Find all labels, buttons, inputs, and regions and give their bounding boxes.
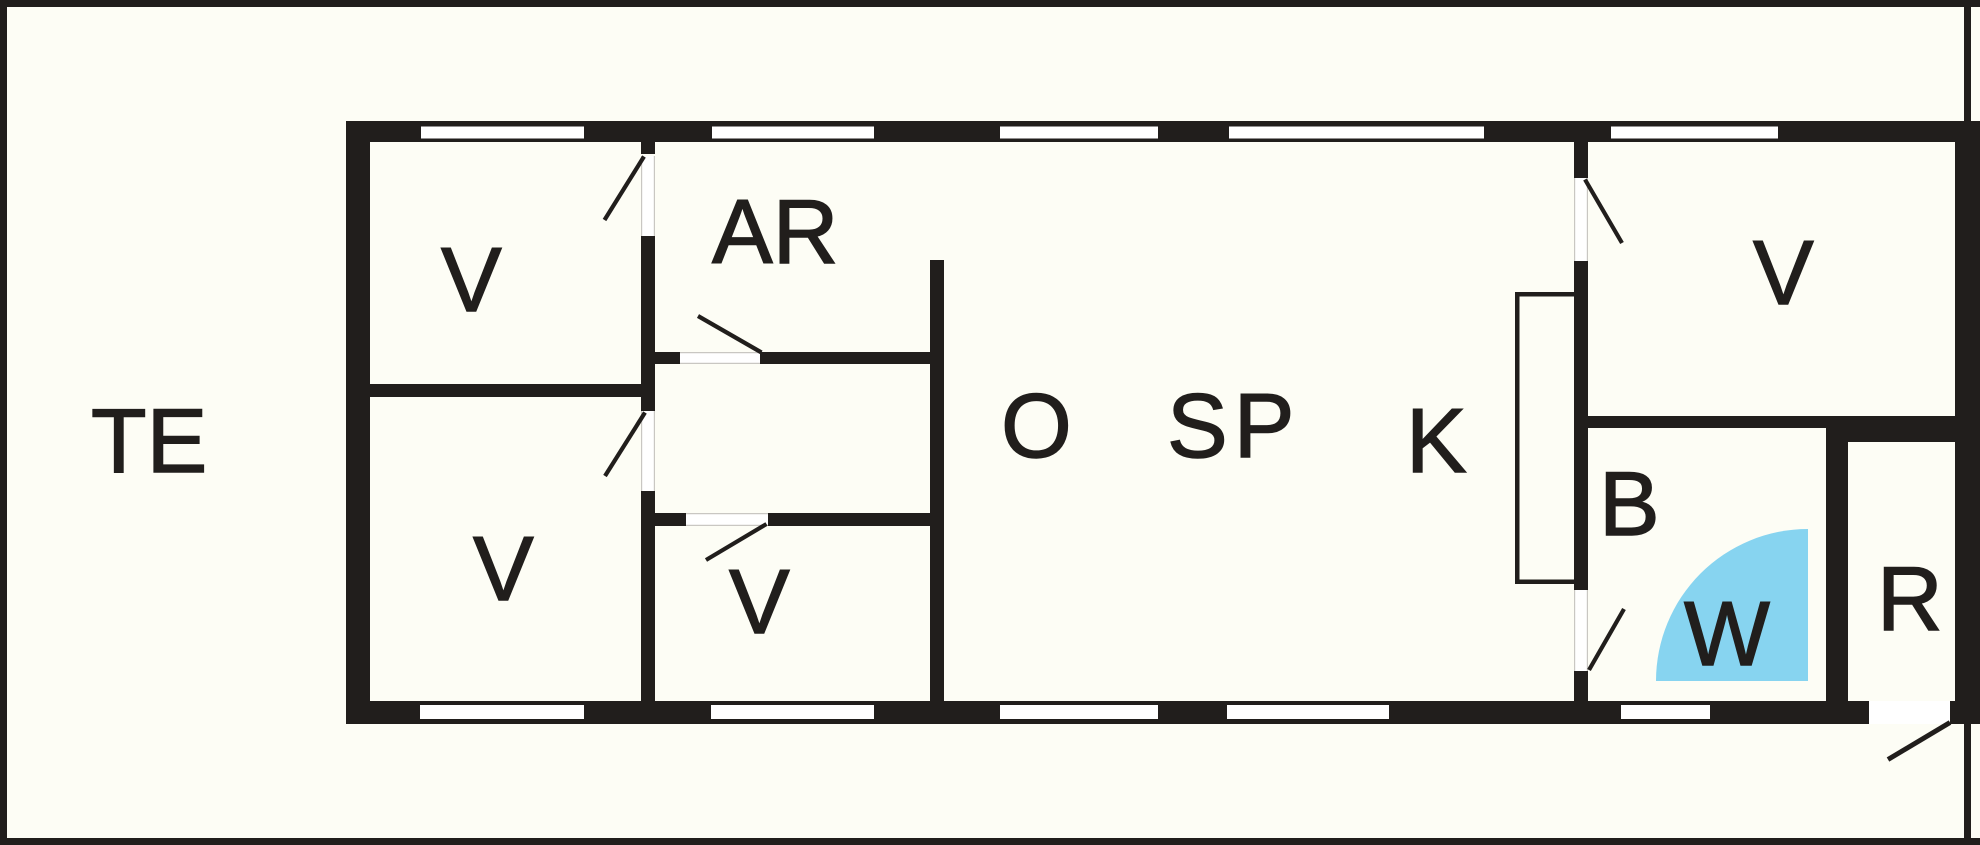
svg-text:V: V xyxy=(729,552,790,653)
svg-text:O: O xyxy=(1001,376,1072,477)
svg-text:SP: SP xyxy=(1167,376,1300,477)
svg-text:AR: AR xyxy=(712,182,838,283)
svg-text:W: W xyxy=(1684,584,1770,685)
svg-text:K: K xyxy=(1406,391,1467,492)
svg-text:V: V xyxy=(441,230,502,331)
svg-text:B: B xyxy=(1599,454,1660,555)
svg-text:R: R xyxy=(1877,549,1943,650)
svg-text:TE: TE xyxy=(91,391,207,492)
svg-text:V: V xyxy=(473,519,534,620)
svg-text:V: V xyxy=(1753,223,1814,324)
